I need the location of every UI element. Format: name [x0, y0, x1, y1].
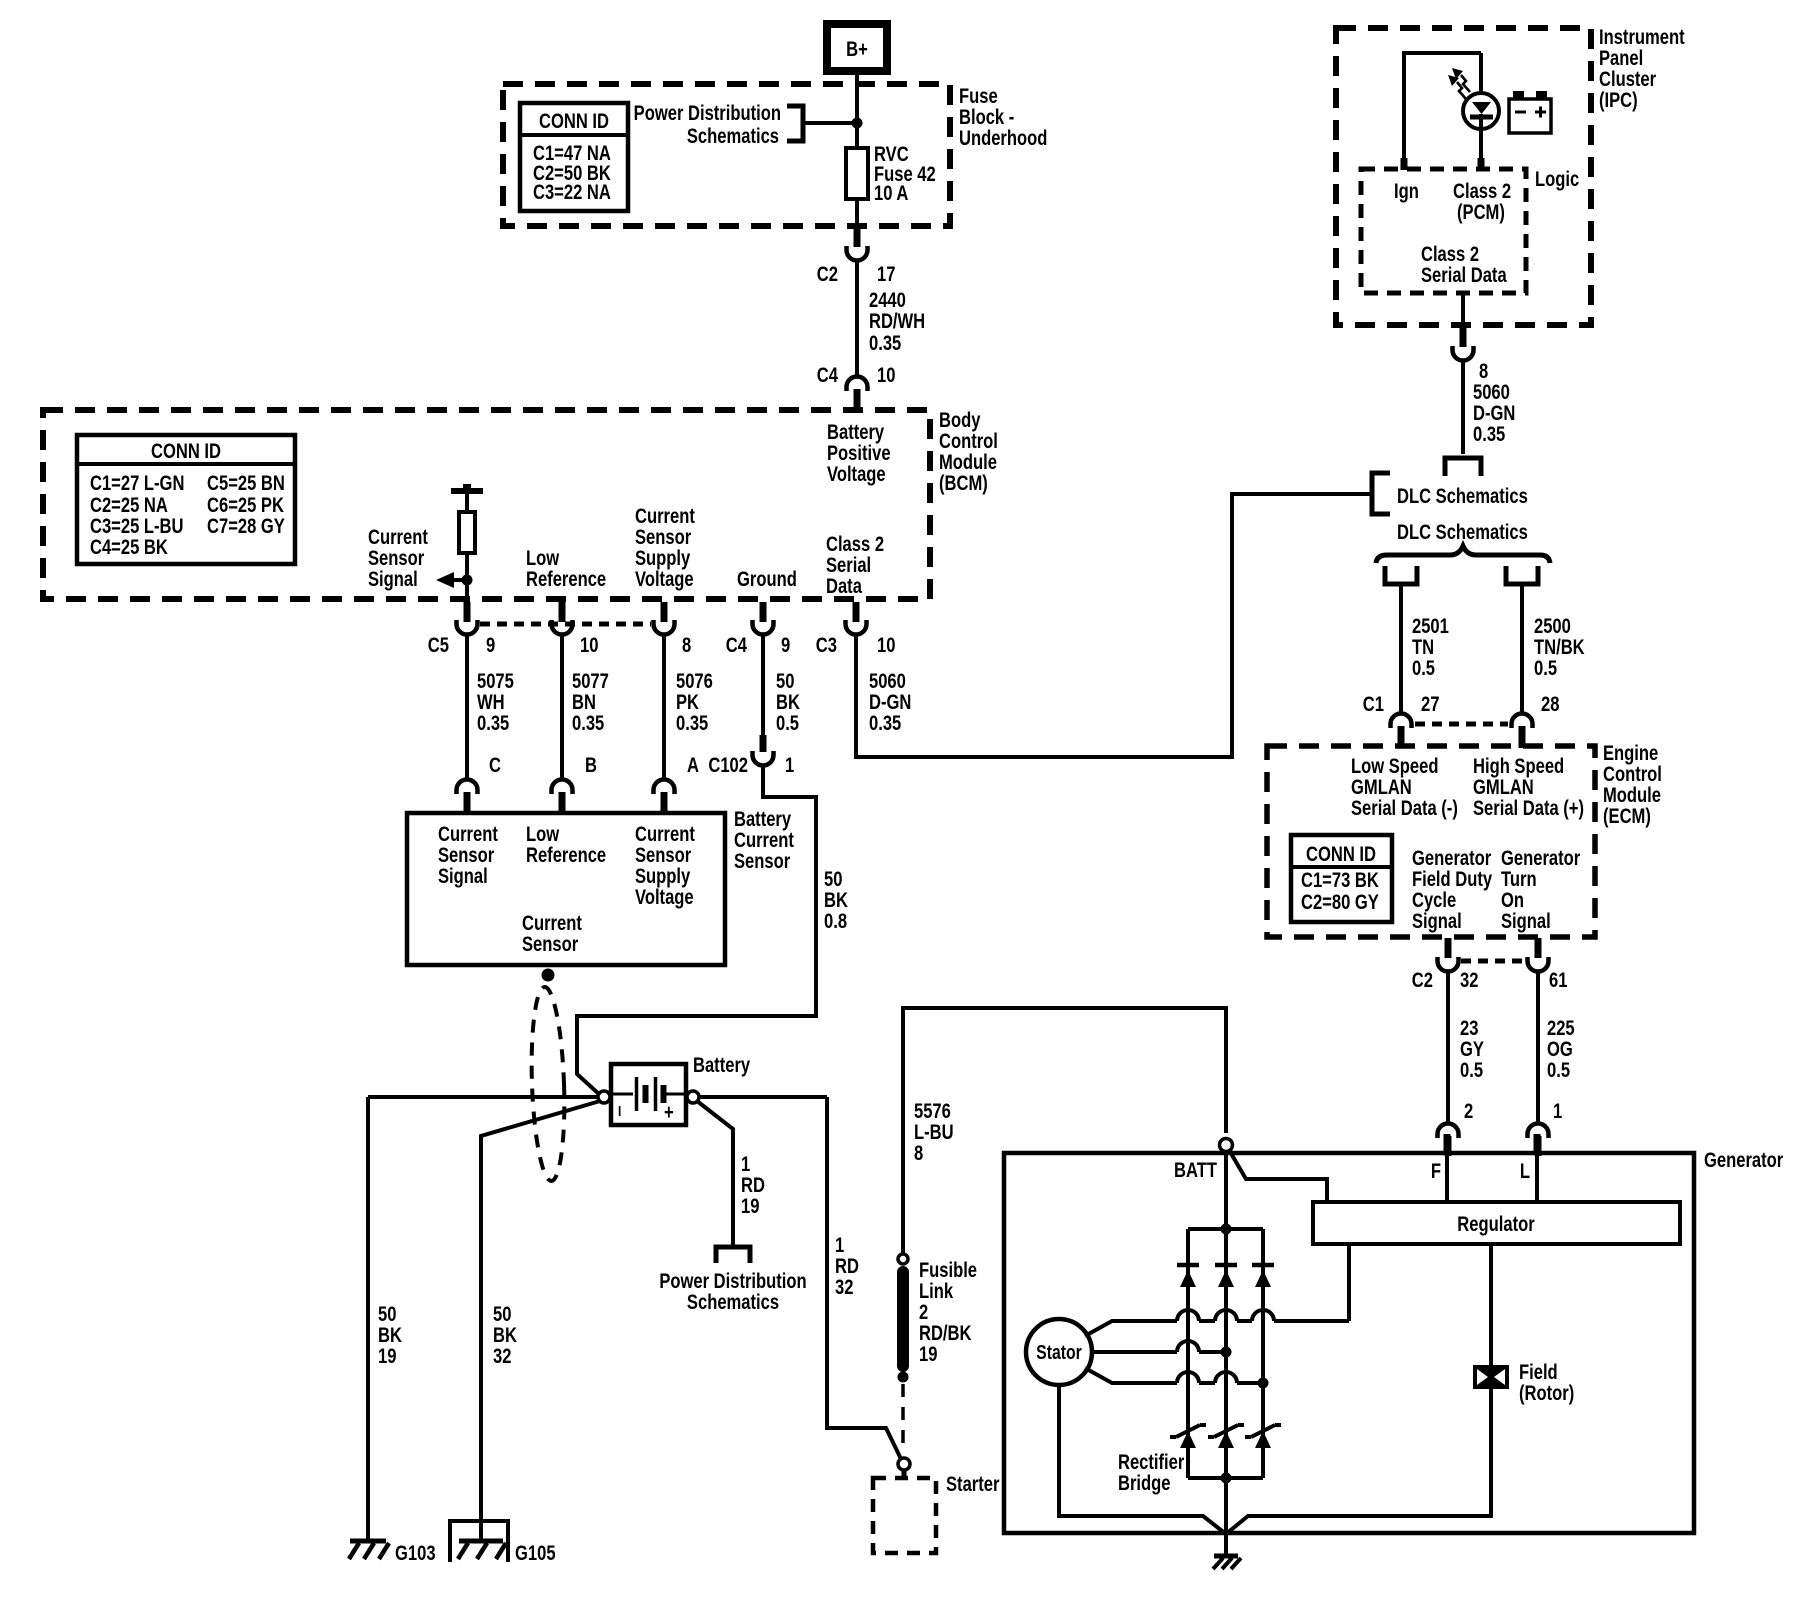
- LED diode symbol: [1470, 102, 1493, 129]
- battery negative terminal: [598, 1091, 610, 1103]
- svg-text:Current: Current: [635, 505, 695, 528]
- wire LED to logic: [1479, 129, 1483, 169]
- wire 1 RD 19 to power distribution: [697, 1101, 765, 1245]
- svg-text:C2: C2: [817, 263, 838, 286]
- svg-text:5576: 5576: [914, 1100, 951, 1123]
- svg-text:Sensor: Sensor: [635, 844, 692, 867]
- diode 2 top: [1215, 1265, 1237, 1287]
- wire 50 BK 19 label: [378, 1303, 402, 1368]
- connector C4 pin 9 ground: [726, 602, 790, 658]
- svg-text:5060: 5060: [1473, 381, 1510, 404]
- ECM low speed gmlan label: [1351, 755, 1458, 820]
- svg-text:32: 32: [493, 1345, 511, 1368]
- generator label: [1704, 1149, 1784, 1172]
- svg-text:Field: Field: [1519, 1361, 1558, 1384]
- svg-text:(Rotor): (Rotor): [1519, 1382, 1574, 1405]
- svg-text:0.5: 0.5: [1460, 1059, 1483, 1082]
- wire L terminal: [1520, 1134, 1537, 1202]
- wire 5060 D-GN to DLC: [856, 494, 1372, 757]
- svg-text:CONN ID: CONN ID: [539, 110, 609, 133]
- svg-text:Schematics: Schematics: [687, 1291, 779, 1314]
- diode 3 top: [1252, 1265, 1274, 1287]
- wire F terminal: [1431, 1134, 1447, 1202]
- svg-text:Current: Current: [522, 912, 582, 935]
- svg-text:Signal: Signal: [438, 865, 488, 888]
- svg-text:Positive: Positive: [827, 442, 891, 465]
- wire 5060 D-GN from IPC: [1463, 362, 1515, 454]
- svg-text:RD/WH: RD/WH: [869, 310, 925, 333]
- svg-text:2440: 2440: [869, 289, 906, 312]
- ECM label: [1603, 742, 1662, 828]
- stator phase wire 2: [1092, 1341, 1232, 1358]
- svg-text:1: 1: [785, 754, 794, 777]
- svg-text:Sensor: Sensor: [734, 850, 791, 873]
- fuse block CONN ID table: [520, 103, 628, 211]
- rectifier column 3: [1261, 1229, 1265, 1478]
- svg-text:1: 1: [835, 1234, 844, 1257]
- svg-text:0.35: 0.35: [1473, 423, 1505, 446]
- dashed tie ECM C2 pins: [1461, 959, 1525, 964]
- svg-text:Engine: Engine: [1603, 742, 1658, 765]
- rectifier column 1: [1186, 1229, 1190, 1478]
- power distribution schematics bottom label: [659, 1270, 806, 1314]
- ign label: [1394, 180, 1419, 203]
- svg-text:C5: C5: [428, 634, 449, 657]
- connector C5 pin 10: [552, 602, 599, 658]
- svg-text:8: 8: [682, 634, 691, 657]
- svg-text:Module: Module: [1603, 784, 1661, 807]
- wire regulator to field: [1489, 1244, 1493, 1365]
- svg-text:BK: BK: [493, 1324, 517, 1347]
- svg-text:Battery: Battery: [734, 808, 792, 831]
- svg-text:BN: BN: [572, 691, 596, 714]
- svg-text:(IPC): (IPC): [1599, 89, 1638, 112]
- svg-text:C2=25 NA: C2=25 NA: [90, 494, 168, 517]
- avalanche diode 3: [1245, 1425, 1281, 1448]
- wire 5077 BN: [562, 636, 609, 778]
- svg-text:B+: B+: [846, 38, 868, 61]
- stator phase wire 1: [1085, 1244, 1349, 1336]
- svg-text:Body: Body: [939, 409, 981, 432]
- fork to power distribution schematics: [716, 1247, 750, 1263]
- svg-text:C3: C3: [816, 634, 837, 657]
- fuse block underhood dashed box: [503, 84, 950, 226]
- svg-text:Power Distribution: Power Distribution: [634, 102, 781, 125]
- battery cell symbol: [611, 1077, 686, 1125]
- ECM CONN ID table: [1291, 835, 1392, 922]
- wire 2440 RD/WH: [857, 261, 925, 377]
- svg-text:Panel: Panel: [1599, 47, 1643, 70]
- svg-text:Serial Data: Serial Data: [1421, 264, 1507, 287]
- svg-text:Signal: Signal: [1412, 910, 1462, 933]
- svg-text:Starter: Starter: [946, 1473, 1000, 1496]
- wire 225 OG: [1538, 973, 1575, 1124]
- svg-text:C1: C1: [1363, 693, 1384, 716]
- svg-text:C7=28 GY: C7=28 GY: [207, 515, 285, 538]
- svg-text:C3=22 NA: C3=22 NA: [533, 181, 611, 204]
- svg-text:8: 8: [1479, 360, 1488, 383]
- IPC battery icon: [1509, 91, 1551, 133]
- svg-text:10: 10: [877, 364, 895, 387]
- current sensor box: [407, 813, 725, 965]
- svg-text:2: 2: [919, 1301, 928, 1324]
- svg-text:Rectifier: Rectifier: [1118, 1451, 1185, 1474]
- stator return wire: [1059, 1385, 1226, 1534]
- battery box: [611, 1064, 686, 1125]
- svg-text:WH: WH: [477, 691, 505, 714]
- svg-text:C5=25 BN: C5=25 BN: [207, 472, 285, 495]
- svg-text:Block -: Block -: [959, 106, 1014, 129]
- svg-text:50: 50: [776, 670, 794, 693]
- wire 23 GY: [1448, 973, 1484, 1124]
- svg-text:Sensor: Sensor: [368, 547, 425, 570]
- fork IPC wire to DLC: [1445, 458, 1481, 476]
- svg-text:Fusible: Fusible: [919, 1259, 977, 1282]
- svg-text:32: 32: [1460, 969, 1478, 992]
- svg-text:CONN ID: CONN ID: [1306, 843, 1376, 866]
- svg-text:0.8: 0.8: [824, 910, 847, 933]
- avalanche diode 2: [1208, 1425, 1244, 1448]
- svg-text:Underhood: Underhood: [959, 127, 1047, 150]
- LED arrow 2: [1448, 75, 1466, 99]
- BCM battery positive voltage label: [827, 421, 891, 486]
- svg-text:Ground: Ground: [737, 568, 797, 591]
- wire 50 BK 32 label: [493, 1303, 517, 1368]
- svg-text:0.35: 0.35: [477, 712, 509, 735]
- wire 2500 TN/BK: [1522, 584, 1585, 712]
- current sensor signal arrow: [436, 572, 467, 588]
- svg-text:Signal: Signal: [368, 568, 418, 591]
- svg-text:L-BU: L-BU: [914, 1121, 954, 1144]
- svg-text:L: L: [1520, 1160, 1530, 1183]
- svg-text:Voltage: Voltage: [635, 886, 694, 909]
- svg-text:Control: Control: [1603, 763, 1662, 786]
- svg-text:(BCM): (BCM): [939, 472, 988, 495]
- svg-text:I: I: [618, 1103, 621, 1120]
- BCM pull-up supply bar: [451, 484, 483, 491]
- wire 50 BK 0.8 to battery negative: [577, 767, 848, 1095]
- svg-text:Logic: Logic: [1535, 168, 1579, 191]
- svg-text:Instrument: Instrument: [1599, 26, 1685, 49]
- current sensor name label: [522, 912, 582, 956]
- svg-text:17: 17: [877, 263, 895, 286]
- ECM generator turn on label: [1501, 847, 1581, 933]
- fusible link terminal circle: [898, 1254, 908, 1264]
- fuse RVC Fuse 42 10A: [846, 143, 936, 205]
- wire BATT main vertical: [1224, 1151, 1228, 1229]
- node B+ battery positive terminal: [827, 24, 887, 71]
- current sensor loop dashed ellipse: [529, 987, 568, 1182]
- svg-text:(ECM): (ECM): [1603, 805, 1651, 828]
- svg-text:Sensor: Sensor: [522, 933, 579, 956]
- svg-text:50: 50: [824, 868, 842, 891]
- battery label: [693, 1054, 751, 1077]
- svg-text:10: 10: [877, 634, 895, 657]
- svg-text:Battery: Battery: [693, 1054, 751, 1077]
- svg-text:Class 2: Class 2: [1421, 243, 1479, 266]
- class 2 serial data label: [1421, 243, 1507, 287]
- svg-text:0.35: 0.35: [869, 712, 901, 735]
- svg-text:C1=73 BK: C1=73 BK: [1301, 869, 1379, 892]
- svg-text:Turn: Turn: [1501, 868, 1537, 891]
- svg-text:0.5: 0.5: [1534, 657, 1557, 680]
- svg-text:F: F: [1431, 1160, 1441, 1183]
- svg-text:C2=80 GY: C2=80 GY: [1301, 891, 1379, 914]
- svg-text:19: 19: [741, 1195, 759, 1218]
- svg-text:GMLAN: GMLAN: [1473, 776, 1534, 799]
- starter stub: [902, 1470, 907, 1479]
- wire ign branch: [1404, 53, 1481, 169]
- wire battery positive to 1RD32: [699, 1095, 827, 1099]
- svg-text:G103: G103: [395, 1542, 436, 1565]
- svg-text:0.35: 0.35: [676, 712, 708, 735]
- bracket DLC schematics: [1372, 473, 1390, 514]
- sensor low reference label: [526, 823, 606, 867]
- svg-text:Current: Current: [438, 823, 498, 846]
- svg-text:50: 50: [378, 1303, 396, 1326]
- svg-text:Current: Current: [734, 829, 794, 852]
- svg-text:19: 19: [378, 1345, 396, 1368]
- svg-text:Schematics: Schematics: [687, 125, 779, 148]
- connector C5 pin 8: [654, 602, 692, 658]
- IPC connector pin 8: [1453, 322, 1489, 384]
- BCM low reference label: [526, 547, 606, 591]
- ECM high speed gmlan label: [1473, 755, 1584, 820]
- svg-text:C1=27 L-GN: C1=27 L-GN: [90, 472, 184, 495]
- BCM current sensor supply voltage label: [635, 505, 695, 591]
- svg-text:Low: Low: [526, 547, 559, 570]
- svg-text:Signal: Signal: [1501, 910, 1551, 933]
- svg-text:Generator: Generator: [1501, 847, 1581, 870]
- svg-text:C4: C4: [726, 634, 748, 657]
- svg-text:D-GN: D-GN: [1473, 402, 1515, 425]
- wire G103 down: [366, 1097, 370, 1541]
- wire battery negative cable to G105: [481, 1101, 600, 1541]
- connector C4 pin 10 into BCM: [817, 364, 896, 412]
- svg-text:Stator: Stator: [1036, 1341, 1082, 1363]
- svg-text:225: 225: [1547, 1017, 1575, 1040]
- power distribution schematics label: [634, 102, 781, 148]
- IPC label: [1599, 26, 1685, 112]
- BCM label: [939, 409, 998, 495]
- svg-text:CONN ID: CONN ID: [151, 440, 221, 463]
- svg-text:Class 2: Class 2: [1453, 180, 1511, 203]
- wire 1 RD 32 to starter: [827, 1097, 901, 1459]
- svg-text:C4: C4: [817, 364, 839, 387]
- logic label: [1535, 168, 1579, 191]
- field return wire: [1226, 1389, 1491, 1534]
- sensor supply voltage label: [635, 823, 695, 909]
- wire 5576 L-BU: [903, 1008, 1226, 1254]
- svg-text:Battery: Battery: [827, 421, 885, 444]
- sensor connector pin A: [654, 754, 700, 814]
- BCM current sensor signal label: [368, 526, 428, 591]
- wire 50 BK 0.5: [763, 636, 800, 736]
- svg-text:BATT: BATT: [1174, 1159, 1217, 1182]
- connector C1 pin 27: [1363, 693, 1440, 748]
- connector C1 pin 28: [1512, 693, 1560, 748]
- svg-text:Current: Current: [635, 823, 695, 846]
- svg-text:Serial Data (+): Serial Data (+): [1473, 797, 1584, 820]
- svg-text:Link: Link: [919, 1280, 953, 1303]
- svg-text:19: 19: [919, 1343, 937, 1366]
- svg-text:Voltage: Voltage: [635, 568, 694, 591]
- field rotor symbol: [1473, 1365, 1509, 1389]
- svg-text:28: 28: [1541, 693, 1559, 716]
- engine control module dashed box: [1267, 746, 1595, 937]
- svg-text:10: 10: [580, 634, 598, 657]
- svg-text:Bridge: Bridge: [1118, 1472, 1171, 1495]
- svg-text:DLC Schematics: DLC Schematics: [1397, 485, 1528, 508]
- svg-text:Ign: Ign: [1394, 180, 1419, 203]
- svg-text:Low Speed: Low Speed: [1351, 755, 1438, 778]
- wire 5076 PK: [664, 636, 713, 778]
- generator box: [1004, 1153, 1694, 1533]
- ground G103: [349, 1541, 436, 1566]
- fork DLC low speed: [1385, 566, 1417, 584]
- svg-text:BK: BK: [776, 691, 800, 714]
- svg-text:32: 32: [835, 1276, 853, 1299]
- svg-text:Generator: Generator: [1412, 847, 1492, 870]
- svg-text:Low: Low: [526, 823, 559, 846]
- svg-text:Control: Control: [939, 430, 998, 453]
- rectifier column 2: [1224, 1229, 1228, 1534]
- svg-text:GMLAN: GMLAN: [1351, 776, 1412, 799]
- resistor in BCM: [459, 512, 475, 553]
- svg-text:C2: C2: [1412, 969, 1433, 992]
- svg-text:C102: C102: [708, 754, 748, 777]
- svg-text:Class 2: Class 2: [826, 533, 884, 556]
- class 2 pcm label: [1453, 180, 1511, 224]
- svg-text:On: On: [1501, 889, 1524, 912]
- svg-text:Cycle: Cycle: [1412, 889, 1456, 912]
- svg-text:0.5: 0.5: [1412, 657, 1435, 680]
- wire B+ to fuse: [855, 71, 859, 148]
- stator circle: [1026, 1319, 1092, 1385]
- BATT label: [1174, 1159, 1217, 1182]
- body control module dashed box: [43, 410, 930, 599]
- svg-text:Reference: Reference: [526, 568, 606, 591]
- wire fuse to C2: [855, 199, 859, 227]
- logic dashed box: [1361, 169, 1526, 293]
- dashed tie C1 pins: [1415, 722, 1508, 727]
- svg-text:Reference: Reference: [526, 844, 606, 867]
- wire bracket to node: [803, 121, 855, 125]
- wire 5075 WH: [467, 636, 514, 778]
- BATT terminal circle: [1220, 1139, 1233, 1152]
- svg-text:1: 1: [741, 1153, 750, 1176]
- starter terminal circle: [898, 1458, 910, 1470]
- svg-text:C4=25 BK: C4=25 BK: [90, 536, 168, 559]
- svg-text:Sensor: Sensor: [635, 526, 692, 549]
- wire resistor to junction: [465, 553, 469, 601]
- svg-text:RD/BK: RD/BK: [919, 1322, 972, 1345]
- fusible link bottom dot: [898, 1372, 909, 1383]
- svg-text:5077: 5077: [572, 670, 609, 693]
- connector C2 pin 32: [1412, 938, 1479, 993]
- svg-text:0.35: 0.35: [869, 332, 901, 355]
- svg-text:High Speed: High Speed: [1473, 755, 1564, 778]
- svg-text:RD: RD: [835, 1255, 859, 1278]
- svg-text:Supply: Supply: [635, 865, 691, 888]
- svg-text:C3=25 L-BU: C3=25 L-BU: [90, 515, 184, 538]
- fork DLC high speed: [1506, 566, 1538, 584]
- svg-text:OG: OG: [1547, 1038, 1573, 1061]
- svg-text:A: A: [687, 754, 699, 777]
- wire LED branch upper: [1479, 53, 1483, 94]
- svg-text:Field Duty: Field Duty: [1412, 868, 1493, 891]
- svg-text:RD: RD: [741, 1174, 765, 1197]
- DLC schematics pointer 1: [1397, 485, 1528, 508]
- svg-text:1: 1: [1553, 1100, 1562, 1123]
- junction dot at B+ feed: [852, 118, 863, 129]
- wire battery negative to G103: [368, 1095, 598, 1099]
- svg-text:0.35: 0.35: [572, 712, 604, 735]
- junction dot current sensor signal: [462, 575, 473, 586]
- battery positive terminal: [687, 1091, 699, 1103]
- sensor connector pin B: [552, 754, 597, 814]
- svg-text:9: 9: [781, 634, 790, 657]
- svg-text:GY: GY: [1460, 1038, 1484, 1061]
- svg-text:5076: 5076: [676, 670, 713, 693]
- instrument panel cluster dashed box: [1336, 28, 1591, 325]
- generator ground stem: [1224, 1534, 1228, 1556]
- connector C2 pin 17: [817, 224, 896, 287]
- battery current sensor label: [734, 808, 794, 873]
- rectifier bridge label: [1118, 1451, 1185, 1495]
- svg-text:Current: Current: [368, 526, 428, 549]
- svg-text:Serial: Serial: [826, 554, 871, 577]
- dashed tie C5 pins: [480, 622, 651, 627]
- svg-text:2: 2: [1464, 1100, 1473, 1123]
- svg-text:5060: 5060: [869, 670, 906, 693]
- logic pin stubs: [1404, 158, 1481, 170]
- wire BATT to regulator: [1229, 1150, 1327, 1202]
- stator phase wire 3: [1085, 1368, 1269, 1389]
- rectifier top bar: [1188, 1224, 1263, 1235]
- svg-text:+: +: [664, 1101, 674, 1124]
- svg-text:27: 27: [1421, 693, 1439, 716]
- svg-text:TN: TN: [1412, 636, 1434, 659]
- svg-text:Generator: Generator: [1704, 1149, 1784, 1172]
- generator connector pin 2: [1438, 1100, 1474, 1156]
- svg-text:9: 9: [486, 634, 495, 657]
- brace DLC: [1376, 546, 1550, 563]
- svg-text:5075: 5075: [477, 670, 514, 693]
- svg-text:D-GN: D-GN: [869, 691, 911, 714]
- svg-text:2501: 2501: [1412, 615, 1449, 638]
- svg-text:Supply: Supply: [635, 547, 691, 570]
- svg-text:Fuse: Fuse: [959, 85, 998, 108]
- generator connector pin 1: [1528, 1100, 1563, 1156]
- ECM generator field duty cycle label: [1412, 847, 1493, 933]
- BCM CONN ID table: [77, 435, 295, 564]
- BCM class 2 serial data label: [826, 533, 884, 598]
- sensor loop junction dot: [542, 969, 555, 982]
- svg-text:PK: PK: [676, 691, 699, 714]
- svg-text:C: C: [489, 754, 501, 777]
- fuse block label: [959, 85, 1047, 150]
- connector C5 pin 9: [428, 602, 495, 658]
- svg-text:23: 23: [1460, 1017, 1478, 1040]
- svg-text:Voltage: Voltage: [827, 463, 886, 486]
- telltale LED circle: [1463, 93, 1499, 129]
- sensor connector pin C: [457, 754, 502, 814]
- svg-text:8: 8: [914, 1142, 923, 1165]
- svg-text:Module: Module: [939, 451, 997, 474]
- rectifier bottom bar: [1188, 1473, 1263, 1484]
- connector C102 pin 1: [708, 735, 794, 778]
